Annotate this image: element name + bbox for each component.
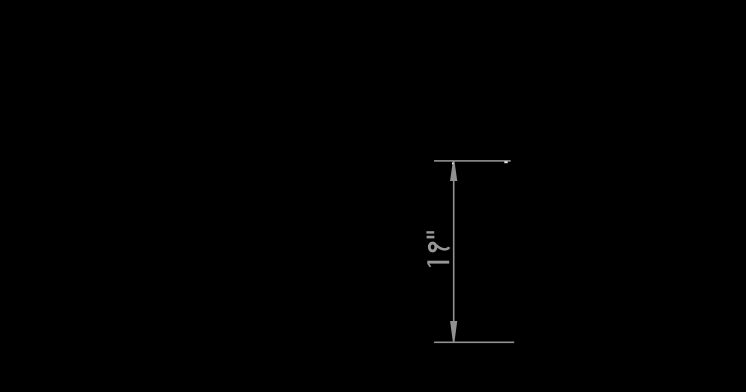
dimension line vertical <box>453 161 455 341</box>
extension line top <box>434 160 511 162</box>
label 19" inch quote mark 1 <box>426 231 434 233</box>
white highlight at top arrow junction <box>452 163 454 165</box>
label 19" inch quote mark 2 <box>427 236 435 239</box>
label 19" digit 9 bowl <box>429 243 436 251</box>
arrowhead bottom <box>450 321 457 342</box>
white highlight on top extension line <box>504 161 507 163</box>
extension line bottom <box>434 342 514 344</box>
label 19" digit 1 stem <box>427 261 449 264</box>
label 19" digit 9 tail <box>436 245 449 249</box>
arrowhead top <box>450 162 457 182</box>
label 19" digit 1 flag <box>428 263 431 267</box>
